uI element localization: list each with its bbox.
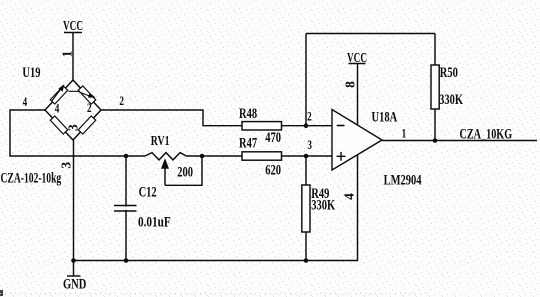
resistor R50 bbox=[431, 65, 439, 109]
junction feedback to pin2 bbox=[304, 123, 309, 128]
wire R49 vertical bbox=[305, 156, 307, 261]
svg-text:CZA-102-10kg: CZA-102-10kg bbox=[1, 169, 62, 186]
junction R49 to ground rail bbox=[304, 258, 309, 263]
svg-text:470: 470 bbox=[265, 128, 281, 145]
ground symbol GND bbox=[67, 261, 81, 277]
svg-text:330K: 330K bbox=[311, 195, 335, 212]
svg-text:U18A: U18A bbox=[372, 107, 398, 124]
svg-text:GND: GND bbox=[63, 274, 86, 291]
junction RV1 wiper tie bbox=[200, 154, 205, 159]
svg-text:VCC: VCC bbox=[63, 17, 83, 34]
svg-text:CZA_10KG: CZA_10KG bbox=[460, 125, 513, 141]
svg-text:4: 4 bbox=[342, 193, 357, 200]
svg-text:8: 8 bbox=[343, 81, 358, 88]
svg-text:2: 2 bbox=[87, 101, 92, 115]
resistor R47 bbox=[242, 152, 282, 160]
wire feedback top bbox=[306, 33, 435, 35]
wire pin2 to R48 bbox=[101, 110, 332, 126]
bridge arrow right bbox=[69, 91, 95, 97]
junction C12 tap bbox=[124, 154, 129, 159]
bridge arm resistor bottom-right bbox=[78, 116, 95, 134]
wire output bbox=[382, 140, 537, 142]
svg-text:3: 3 bbox=[59, 162, 74, 169]
wire bridge pin3 stem to ground rail bbox=[73, 140, 75, 261]
svg-text:2: 2 bbox=[119, 95, 124, 109]
svg-text:R47: R47 bbox=[239, 133, 258, 150]
RV1 wiper arrow bbox=[162, 160, 168, 185]
bridge arrow left bbox=[52, 86, 64, 102]
bridge arm resistor top-right bbox=[78, 86, 95, 104]
bridge arm resistor bottom-left bbox=[50, 116, 67, 134]
svg-text:1: 1 bbox=[402, 127, 407, 141]
svg-text:0.01uF: 0.01uF bbox=[138, 213, 171, 230]
svg-text:330K: 330K bbox=[439, 90, 463, 107]
svg-text:3: 3 bbox=[66, 124, 81, 131]
bridge U19 diamond bbox=[45, 80, 101, 140]
wire ground rail bbox=[74, 155, 358, 261]
svg-text:200: 200 bbox=[177, 163, 193, 180]
svg-text:VCC: VCC bbox=[347, 49, 367, 66]
svg-text:1: 1 bbox=[59, 50, 74, 57]
op-amp minus input mark bbox=[337, 125, 345, 127]
wire C12 vertical bbox=[125, 156, 127, 261]
svg-text:4: 4 bbox=[55, 102, 60, 116]
junction R50 to output bbox=[433, 138, 438, 143]
RV1 wiper wire loop bbox=[165, 156, 202, 185]
resistor R49 bbox=[302, 185, 310, 232]
junction ground at GND bbox=[71, 258, 76, 263]
power VCC bridge supply bbox=[64, 33, 82, 81]
wire R50 vertical bbox=[434, 34, 436, 141]
wire pin4 left detour bbox=[10, 110, 145, 156]
svg-text:R48: R48 bbox=[239, 104, 258, 121]
op-amp plus input mark bbox=[337, 152, 346, 161]
junction C12 to ground rail bbox=[124, 258, 129, 263]
svg-text:LM2904: LM2904 bbox=[384, 171, 422, 188]
op-amp U18A triangle bbox=[332, 110, 382, 171]
resistor R48 bbox=[242, 122, 282, 130]
wire feedback left vertical bbox=[305, 34, 307, 126]
edge artifact bottom-left bbox=[0, 290, 3, 296]
potentiometer RV1 zigzag bbox=[145, 153, 186, 160]
svg-text:620: 620 bbox=[265, 160, 281, 177]
svg-text:R50: R50 bbox=[440, 63, 458, 80]
junction R49 to pin3 bbox=[304, 154, 309, 159]
power VCC op-amp supply bbox=[349, 64, 366, 126]
svg-text:2: 2 bbox=[307, 110, 312, 124]
bridge arm resistor top-left bbox=[50, 86, 67, 104]
wire main line RV1 right to op-amp pin3 bbox=[186, 155, 332, 157]
capacitor C12 bbox=[114, 206, 137, 212]
svg-text:4: 4 bbox=[23, 95, 28, 109]
svg-text:U19: U19 bbox=[22, 63, 40, 80]
svg-text:3: 3 bbox=[307, 139, 312, 153]
svg-text:RV1: RV1 bbox=[151, 132, 170, 148]
svg-text:C12: C12 bbox=[139, 183, 157, 200]
edge artifact bottom dotted line bbox=[0, 293, 430, 295]
